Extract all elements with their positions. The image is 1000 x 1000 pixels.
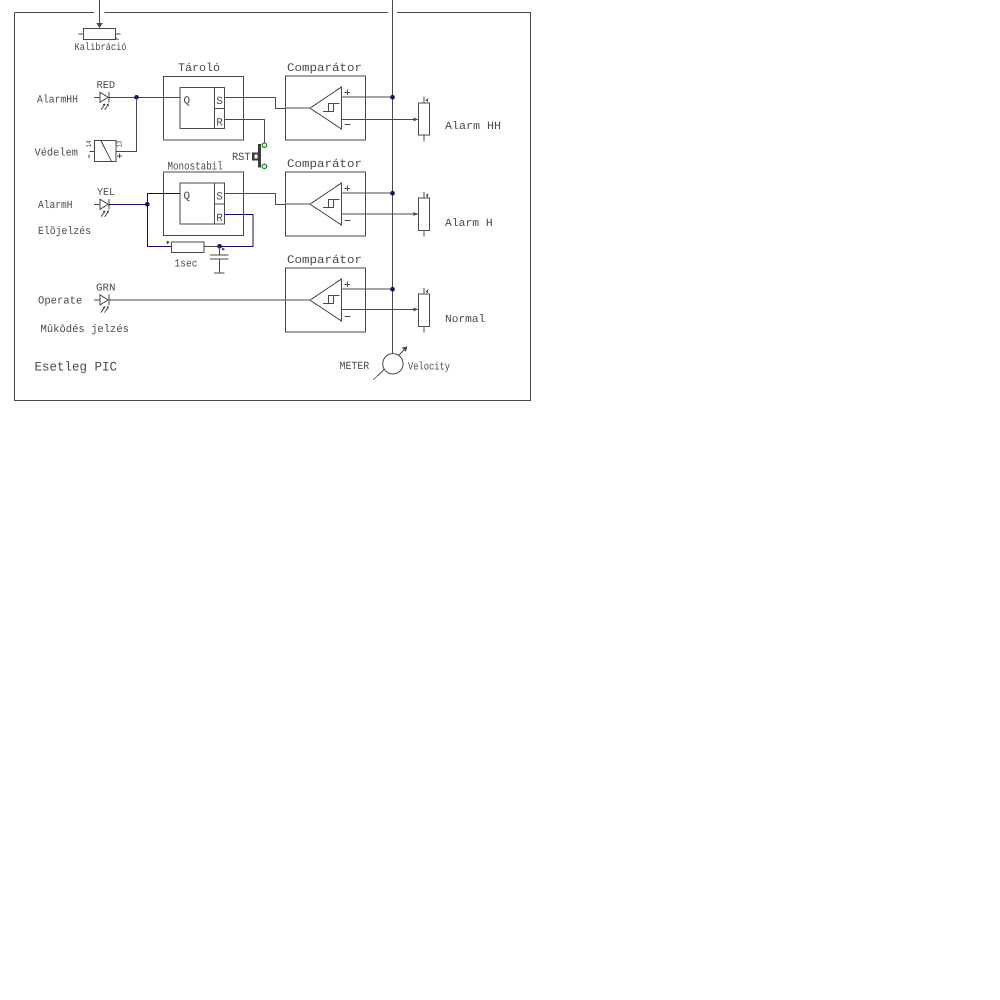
svg-text:Védelem: Védelem (35, 147, 79, 159)
svg-text:Alarm HH: Alarm HH (445, 121, 501, 133)
svg-text:YEL: YEL (97, 187, 115, 199)
svg-text:Tároló: Tároló (178, 62, 220, 75)
svg-text:R: R (216, 213, 223, 225)
svg-text:Comparátor: Comparátor (287, 254, 362, 267)
svg-text:14: 14 (86, 140, 94, 147)
svg-text:1sec: 1sec (175, 258, 198, 270)
svg-text:Comparátor: Comparátor (287, 158, 362, 171)
svg-text:Operate: Operate (38, 295, 82, 307)
svg-text:RED: RED (97, 80, 116, 92)
svg-text:R: R (216, 118, 223, 130)
svg-text:Monostabil: Monostabil (168, 160, 223, 173)
svg-text:S: S (216, 96, 223, 108)
svg-text:Alarm H: Alarm H (445, 218, 493, 230)
svg-text:Normal: Normal (445, 314, 485, 326)
svg-text:S: S (216, 192, 223, 204)
svg-text:Elõjelzés: Elõjelzés (38, 226, 91, 238)
svg-text:Mûkōdés jelzés: Mûkōdés jelzés (41, 324, 130, 336)
svg-text:Q: Q (184, 191, 191, 203)
svg-text:Esetleg PIC: Esetleg PIC (35, 359, 118, 374)
svg-text:GRN: GRN (96, 282, 116, 294)
svg-text:Kalibráció: Kalibráció (75, 42, 127, 54)
svg-text:Q: Q (184, 96, 191, 108)
svg-text:Velocity: Velocity (408, 362, 450, 374)
svg-text:13: 13 (116, 140, 125, 147)
svg-text:METER: METER (340, 361, 370, 373)
svg-text:AlarmHH: AlarmHH (37, 95, 78, 107)
svg-text:RST: RST (232, 152, 251, 164)
svg-text:Comparátor: Comparátor (287, 62, 362, 75)
svg-text:AlarmH: AlarmH (38, 200, 73, 212)
